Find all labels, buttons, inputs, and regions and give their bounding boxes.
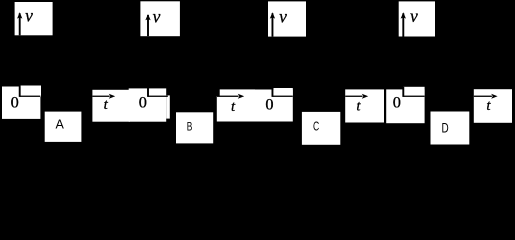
- graph D: t-axis arrowhead: [491, 94, 497, 99]
- answer box D: [431, 112, 470, 145]
- graph C: origin label box: [250, 90, 293, 122]
- graph A: v-axis arrowhead: [17, 12, 22, 18]
- graph A: v-axis segment in origin box: [19, 87, 21, 97]
- svg-text:A: A: [56, 118, 65, 132]
- graph A: t-axis shaft: [92, 96, 109, 97]
- graph C: t-axis arrowhead: [362, 94, 368, 99]
- graph D: origin label box: [386, 89, 424, 123]
- graph B: t-axis box lower-left step: [217, 96, 255, 121]
- graph D: t-axis shaft: [474, 96, 492, 97]
- graph D: t-axis segment in origin box: [403, 96, 424, 97]
- graph D: v-axis arrowhead: [401, 12, 406, 18]
- graph C: v-axis arrowhead: [270, 12, 275, 18]
- graph A: v-axis shaft: [19, 13, 21, 35]
- svg-text:0: 0: [139, 93, 147, 112]
- graph B: t-axis shaft: [217, 96, 239, 97]
- answer box B: [176, 112, 213, 143]
- graph B: t-axis segment in origin box: [148, 96, 168, 97]
- graph D: v-axis segment in origin box: [402, 87, 404, 97]
- graph C: t-axis segment in origin box: [272, 96, 292, 97]
- svg-text:v: v: [279, 7, 287, 27]
- svg-text:v: v: [410, 6, 418, 26]
- svg-text:C: C: [313, 118, 319, 133]
- graph D: v-axis shaft: [402, 13, 404, 36]
- graph A: t-axis segment in origin box: [20, 96, 41, 97]
- graph D: origin corner piece: [403, 87, 424, 97]
- graph A: origin box: [2, 87, 40, 119]
- answer box C: [302, 112, 340, 145]
- graph B: v-axis shaft: [147, 15, 149, 36]
- graph B: origin box lower-right nub: [166, 95, 170, 118]
- graph C: t-axis shaft: [345, 96, 362, 97]
- svg-text:0: 0: [393, 93, 401, 112]
- graph C: t-axis label box: [345, 89, 384, 122]
- graph D: v-axis label box: [399, 1, 435, 36]
- graph A: origin corner piece: [21, 86, 41, 97]
- graph B: v-axis segment in origin box: [147, 86, 149, 97]
- graph A: v-axis label box: [15, 2, 53, 35]
- svg-text:v: v: [153, 7, 161, 27]
- svg-text:v: v: [25, 6, 33, 26]
- graph B: t-axis arrowhead: [238, 94, 244, 99]
- graph B: v-axis arrowhead: [145, 14, 150, 20]
- graph B: origin label box: [129, 88, 167, 121]
- graph C: origin corner piece: [274, 88, 293, 97]
- answer box A: [45, 112, 82, 142]
- svg-text:0: 0: [11, 93, 19, 112]
- graph A: t-axis label box: [92, 90, 130, 122]
- graph B: v-axis label box: [140, 1, 180, 36]
- graph A: t-axis arrowhead: [109, 94, 115, 99]
- graph C: v-axis shaft: [272, 13, 274, 36]
- graph C: v-axis label box: [268, 1, 306, 36]
- graph B: t-axis label box: [220, 89, 255, 121]
- svg-text:0: 0: [265, 94, 273, 113]
- svg-text:D: D: [442, 119, 449, 135]
- graph C: v-axis segment in origin box: [272, 87, 274, 97]
- graph D: t-axis label box: [474, 89, 512, 123]
- svg-text:B: B: [187, 119, 193, 133]
